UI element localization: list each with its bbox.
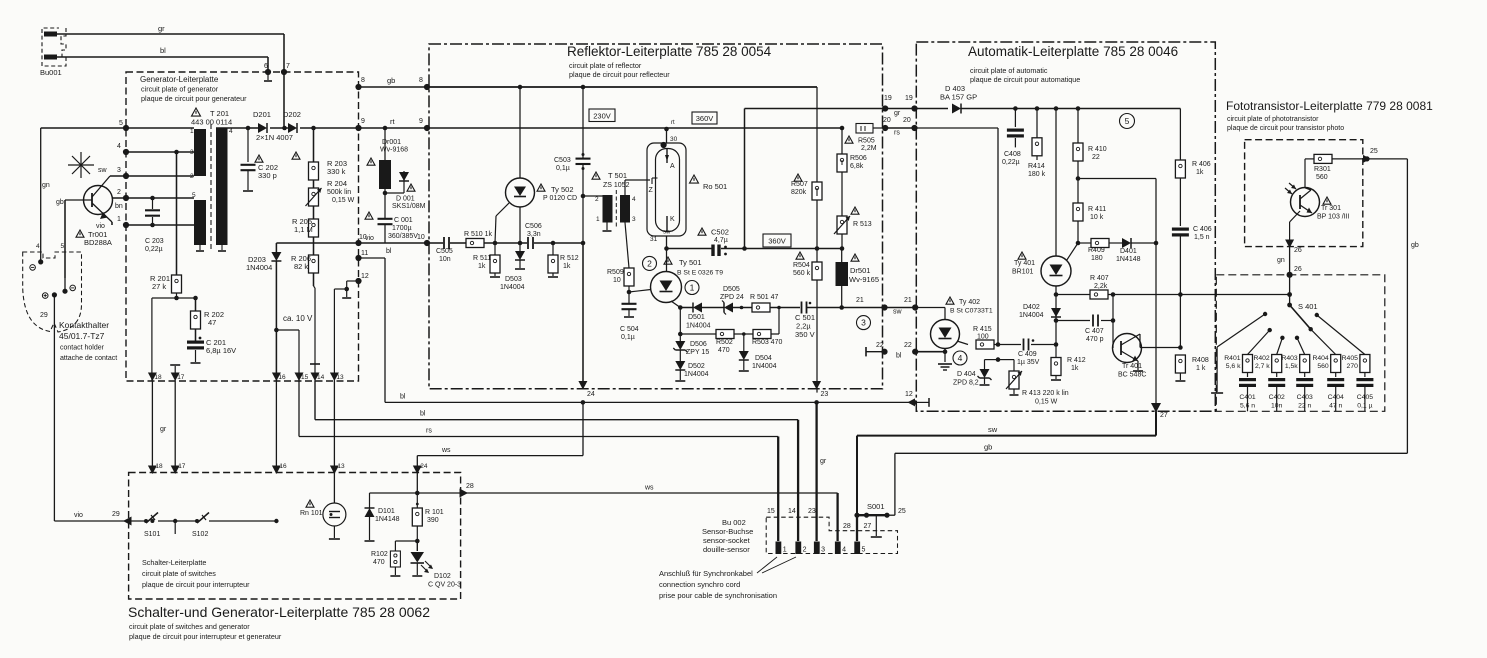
svg-text:1N4004: 1N4004 [686,323,711,330]
svg-text:8: 8 [419,77,423,84]
wire trigger [427,242,443,244]
resistor R507 [816,87,818,182]
svg-text:bl: bl [160,46,166,55]
svg-text:C 409: C 409 [1018,351,1037,358]
transistor Tr401 [1112,295,1114,349]
svg-text:Reflektor-Leiterplatte 785 28: Reflektor-Leiterplatte 785 28 0054 [567,44,772,59]
wire node12 jog [347,280,359,282]
svg-text:douille-sensor: douille-sensor [703,545,750,554]
svg-text:24: 24 [420,463,428,470]
svg-text:ZPD 24: ZPD 24 [720,294,744,301]
svg-text:attache de contact: attache de contact [60,355,117,362]
wire S401 ground branch [1217,314,1265,347]
diode D402 [1055,295,1057,309]
svg-text:Dr001: Dr001 [382,139,401,146]
wire node7 vertical [283,34,285,128]
node junction 779 [777,306,781,310]
svg-text:18: 18 [155,463,163,470]
svg-text:circuit plate of phototransist: circuit plate of phototransistor [1227,116,1319,123]
wire R404 to cap [1335,373,1337,378]
wire vio pin1 [126,224,194,226]
svg-text:R408: R408 [1192,357,1209,364]
thyristor Ty401 [1055,109,1057,257]
node junctions gr rail [1013,106,1018,111]
svg-text:R 411: R 411 [1088,206,1106,213]
svg-text:Ty 402: Ty 402 [959,299,980,306]
svg-text:4: 4 [958,353,963,363]
svg-text:17: 17 [178,463,186,470]
node 8 reflector [424,84,430,90]
svg-text:390: 390 [427,517,439,524]
node 19 reflector [882,105,888,111]
wire rt rail reflector [427,127,842,129]
wire gb link [359,86,818,88]
svg-text:gb: gb [984,443,992,452]
svg-text:20: 20 [903,117,911,124]
svg-text:1: 1 [783,547,787,554]
potentiometer R513 [837,216,847,234]
svg-text:3: 3 [861,318,866,328]
contact plus [42,293,48,299]
node 13 schalter top [330,466,339,475]
capacitor C505 [443,237,445,249]
svg-text:6: 6 [264,63,268,70]
wire D203 col [275,243,277,252]
svg-text:0,15 W: 0,15 W [332,197,355,204]
svg-text:7: 7 [286,63,290,70]
wire S401 contact 1 [1248,330,1270,354]
wire gb rail [1406,159,1408,453]
node 24 reflector bottom [578,381,587,390]
wire S401 contact 4 [1311,329,1336,354]
node 5 [123,125,129,131]
potentiometer R413 [998,359,1014,361]
wire gr pin3 [815,402,817,541]
resistor R411 [1073,203,1083,221]
resistor R414 [1036,109,1038,138]
flash symbol [72,156,90,174]
svg-text:15: 15 [767,508,775,515]
svg-text:330 p: 330 p [258,171,277,180]
svg-text:SKS1/08M: SKS1/08M [392,203,426,210]
svg-text:D503: D503 [505,276,522,283]
circled 2 [643,256,657,270]
svg-text:gb: gb [1411,242,1419,249]
svg-text:470: 470 [373,559,385,566]
svg-text:2: 2 [117,189,121,196]
resistor R403 [1300,355,1310,373]
svg-text:1N4004: 1N4004 [684,371,709,378]
wire anode net [680,307,693,309]
wire rs rail [916,127,998,129]
svg-text:R301: R301 [1314,166,1331,173]
transistor Tr001 [84,186,113,215]
svg-text:C503: C503 [554,157,571,164]
capacitor C402 [1268,378,1285,381]
flashtube Ro501 [647,143,686,236]
svg-text:26: 26 [1294,247,1302,254]
svg-text:560 k: 560 k [793,270,811,277]
diode D101 [416,493,418,505]
wire S101 col17 down [174,521,176,534]
svg-text:D506: D506 [690,341,707,348]
svg-text:1N4004: 1N4004 [500,284,525,291]
svg-text:4: 4 [229,128,233,135]
svg-text:47 n: 47 n [1329,403,1342,410]
pin 4 Bu002 [835,542,841,555]
node 29 [123,517,132,526]
svg-text:10n: 10n [1271,403,1283,410]
svg-text:Bu 002: Bu 002 [722,518,746,527]
wire node17 stub [174,366,176,381]
svg-text:R404: R404 [1312,355,1328,362]
svg-text:4: 4 [117,143,121,150]
thyristor Ty502 [518,85,523,90]
svg-text:R506: R506 [850,155,867,162]
capacitor C001 [384,196,386,218]
svg-text:R 410: R 410 [1088,146,1107,153]
node junction D504 [742,332,746,336]
wire R501-C501 [770,307,800,309]
node 9 generator [355,125,361,131]
circled 5 [1120,114,1135,129]
svg-text:bl: bl [896,353,902,360]
capacitor C203 [152,198,154,209]
svg-text:sw: sw [988,425,998,434]
svg-text:ws: ws [644,485,654,492]
resistor R409 [1078,242,1091,244]
svg-text:30: 30 [670,136,678,143]
svg-text:45/01.7-Tz7: 45/01.7-Tz7 [59,331,105,341]
svg-text:6,8µ 16V: 6,8µ 16V [206,346,236,355]
svg-text:R 501 47: R 501 47 [750,294,779,301]
svg-text:D 404: D 404 [957,371,976,378]
node 28 [460,489,469,498]
wire trigger c [484,242,527,244]
svg-text:14: 14 [317,374,325,381]
svg-text:27 k: 27 k [152,282,166,291]
svg-text:R 513: R 513 [853,221,872,228]
wire sw link [887,307,917,309]
resistor R510 [466,239,484,248]
svg-text:vio: vio [96,223,105,230]
svg-text:BC 548C: BC 548C [1118,372,1146,379]
diode D202 [288,123,297,133]
capacitor C408 [1014,109,1016,128]
svg-text:8: 8 [361,77,365,84]
zener D506 [679,308,681,342]
node 12 right [912,400,917,405]
svg-text:C 504: C 504 [620,326,639,333]
svg-text:1N4148: 1N4148 [375,516,400,523]
svg-text:R504: R504 [793,262,810,269]
capacitor C406 [1172,228,1189,231]
svg-text:1k: 1k [563,263,571,270]
node 21 automatik [912,304,918,310]
wire sw pin2 [110,175,194,177]
node junction 842-248 [840,246,845,251]
resistor R501 [752,303,770,312]
svg-text:R 510 1k: R 510 1k [464,231,493,238]
svg-text:5: 5 [1125,116,1130,126]
svg-text:C403: C403 [1297,394,1313,401]
label Ro501 [690,175,699,183]
diode D203 [271,252,281,261]
resistor R404 [1331,355,1341,373]
wire R403 to cap [1304,373,1306,378]
diode D504 [743,334,745,351]
svg-text:28: 28 [466,483,474,490]
svg-text:prise pour cable de synchronis: prise pour cable de synchronisation [659,591,777,600]
resistor R202 [191,311,201,329]
wire bl rail2 [314,381,316,420]
svg-text:Ty 401: Ty 401 [1014,260,1035,267]
svg-text:0,22µ: 0,22µ [145,246,163,253]
svg-text:rs: rs [426,428,432,435]
svg-text:S101: S101 [144,531,160,538]
contact holder outline [23,252,82,332]
svg-text:circuit plate of generator: circuit plate of generator [141,85,219,94]
svg-text:Schalter-Leiterplatte: Schalter-Leiterplatte [142,558,206,567]
svg-text:1N4004: 1N4004 [1019,312,1044,319]
svg-text:ZPD 8,2: ZPD 8,2 [953,380,979,387]
wire R405 to cap [1364,373,1366,378]
node 4 [123,149,129,155]
resistor R407 [1054,292,1059,297]
node 22 automatik [912,349,918,355]
wire main rail 128b [216,127,248,129]
wire gb to contact [64,278,66,291]
svg-text:plaque de circuit pour automat: plaque de circuit pour automatique [970,75,1080,84]
connector Bu001 socket [42,28,66,66]
svg-text:2,2k: 2,2k [1094,283,1108,290]
wire D201-D202 [270,127,288,129]
svg-text:1N4004: 1N4004 [246,263,272,272]
node 23 reflector bottom [812,381,821,390]
switch S001 [856,514,888,516]
resistor R203 [309,162,319,180]
svg-text:Sensor-Buchse: Sensor-Buchse [702,527,753,536]
svg-text:R502: R502 [716,339,733,346]
svg-text:gb: gb [387,76,395,85]
svg-text:0,22µ: 0,22µ [1002,159,1020,166]
resistor R401 [1243,355,1253,373]
board outline Automatik-Leiterplatte [916,42,1215,411]
svg-text:12: 12 [361,273,369,280]
svg-text:1: 1 [117,216,121,223]
wire vio from plus contact [53,295,55,521]
node 25 photo [1364,156,1369,161]
svg-text:rs: rs [894,130,900,137]
board outline Generator-Leiterplatte [126,72,359,381]
svg-text:gr: gr [160,426,167,433]
svg-text:180: 180 [1091,255,1103,262]
svg-text:R 407: R 407 [1090,275,1109,282]
wire R206 down [313,273,315,286]
wire T501 pin2 [583,195,603,197]
capacitor C503 [581,85,586,90]
resistor R205 [309,219,319,237]
svg-text:R402: R402 [1253,355,1269,362]
node 9 reflector [424,125,430,131]
node 17 schalter top [171,466,180,475]
svg-text:C405: C405 [1357,394,1373,401]
wire pin3 [126,151,194,153]
resistor R504 [816,249,818,263]
diode D001 [384,189,386,196]
wire sw rail [1155,411,1157,435]
svg-text:C 203: C 203 [145,238,164,245]
node 22 reflector [865,347,867,356]
svg-text:10 k: 10 k [1090,214,1104,221]
capacitor C202 [246,126,251,131]
pin 2 Bu002 [795,542,801,555]
svg-text:4: 4 [36,243,40,250]
svg-text:1700µ: 1700µ [392,225,412,232]
svg-text:4: 4 [842,547,846,554]
wire bl link [916,351,945,353]
wire C503 col down [582,243,584,389]
wire D202 out [300,127,427,129]
svg-text:23: 23 [808,508,816,515]
svg-text:gr: gr [820,458,827,465]
wire C501 out [807,307,887,309]
node 11 [355,255,361,261]
svg-text:vio: vio [365,235,374,242]
svg-text:Dr501: Dr501 [850,266,870,275]
svg-text:gn: gn [42,182,50,189]
board outline Reflektor-Leiterplatte [429,44,883,389]
svg-text:R 101: R 101 [425,509,444,516]
svg-text:28: 28 [843,523,851,530]
svg-text:350 V: 350 V [795,330,815,339]
svg-text:21: 21 [904,297,912,304]
svg-text:C 406: C 406 [1193,226,1212,233]
capacitor C403 [1296,378,1313,381]
svg-text:D502: D502 [688,363,705,370]
wire ws lower [417,492,837,494]
capacitor C506 [527,237,529,249]
node junction Dr501 bottom [839,305,844,310]
wire node6 vertical [267,57,269,72]
svg-text:Tr 401: Tr 401 [1122,363,1142,370]
svg-text:6,8k: 6,8k [850,163,864,170]
svg-text:K: K [670,216,675,223]
svg-text:13: 13 [337,463,345,470]
svg-text:330 k: 330 k [327,167,346,176]
resistor R101 [416,493,418,508]
wire tube cathode [666,236,668,249]
node 18 generator bottom [148,373,157,382]
svg-text:D202: D202 [283,110,301,119]
wire gr net reflector [744,109,746,249]
svg-text:D401: D401 [1120,248,1137,255]
node 19 automatik [911,105,917,111]
svg-text:S102: S102 [192,531,208,538]
svg-text:2: 2 [647,258,652,268]
svg-text:R 512: R 512 [560,255,579,262]
zener D404 [985,359,999,361]
svg-text:C402: C402 [1269,394,1285,401]
svg-text:3: 3 [117,167,121,174]
svg-text:S001: S001 [867,502,885,511]
zener D505 [724,303,733,313]
capacitor C409 [1023,339,1025,351]
svg-text:D101: D101 [378,508,395,515]
transformer T201 [194,129,206,176]
wire gb base [64,200,66,278]
led D102 [416,541,418,551]
capacitor C201 [187,341,204,344]
svg-text:R401: R401 [1224,355,1240,362]
svg-text:Wv-9168: Wv-9168 [380,147,408,154]
svg-text:BD288A: BD288A [84,238,112,247]
svg-text:2,7 k: 2,7 k [1255,363,1270,370]
svg-text:B St E 0326 T9: B St E 0326 T9 [677,270,723,277]
node 3 [123,173,129,179]
svg-text:26: 26 [1294,266,1302,273]
resistor R201 [172,275,182,293]
svg-text:230V: 230V [593,112,611,121]
pin 3 Bu002 [814,542,820,555]
svg-text:gr: gr [158,24,165,33]
svg-text:D501: D501 [688,314,705,321]
svg-text:0,15 W: 0,15 W [1035,399,1058,406]
svg-text:16: 16 [278,374,286,381]
svg-text:sw: sw [98,167,108,174]
svg-text:plaque de circuit pour interru: plaque de circuit pour interrupteur [142,580,250,589]
svg-text:2,2M: 2,2M [861,145,877,152]
svg-text:C404: C404 [1328,394,1344,401]
svg-text:560: 560 [1316,174,1328,181]
svg-text:1: 1 [190,128,194,135]
svg-text:1: 1 [690,283,695,293]
svg-text:T 501: T 501 [608,171,627,180]
node 10 generator [355,240,361,246]
wire col18 to switch [151,468,153,521]
svg-text:Generator-Leiterplatte: Generator-Leiterplatte [140,75,219,84]
svg-text:0,1µ: 0,1µ [556,165,570,172]
wire trigger d [534,242,583,244]
svg-text:10n: 10n [439,256,451,263]
resistor R506 [841,128,843,154]
svg-text:D402: D402 [1023,304,1040,311]
svg-text:C505: C505 [436,248,453,255]
svg-text:B St C0733T1: B St C0733T1 [950,308,993,315]
wire R chain top [313,128,315,162]
svg-text:gn: gn [1277,257,1285,264]
svg-text:1k: 1k [1071,365,1079,372]
svg-text:R414: R414 [1028,163,1045,170]
svg-text:Bu001: Bu001 [40,68,62,77]
svg-text:27: 27 [1160,412,1168,419]
wire main rail 128 [41,127,194,129]
node 10 reflector [424,240,430,246]
wire col 17 [174,381,176,468]
svg-text:Z: Z [649,187,654,194]
svg-text:plaque de circuit pour transis: plaque de circuit pour transistor photo [1227,125,1344,132]
svg-text:BR101: BR101 [1012,269,1034,276]
wire T501 pin3 [625,223,629,269]
wire vio rail [276,242,358,244]
choke Dr501 [841,249,843,263]
svg-text:12: 12 [905,391,913,398]
node junction 817-248 [815,246,820,251]
svg-text:D201: D201 [253,110,271,119]
resistor R502 [716,330,734,339]
svg-text:9: 9 [419,118,423,125]
svg-text:29: 29 [40,312,48,319]
